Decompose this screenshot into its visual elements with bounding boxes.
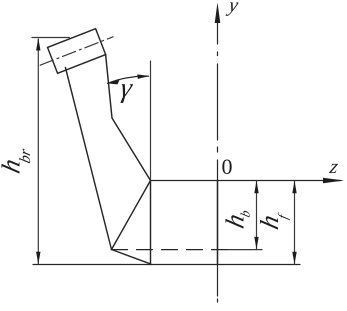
- h_br dimension line: [37, 39, 39, 264]
- h_b dimension line: [256, 181, 258, 249]
- central rectangle left edge: [150, 181, 152, 265]
- baseline (bottom line, h_f extension): [33, 264, 300, 266]
- z axis: [151, 180, 342, 182]
- h_f dimension line: [294, 181, 296, 264]
- y axis (dash-dot): [217, 20, 219, 44]
- blade left edge: [65, 67, 111, 249]
- h_br extension line (top): [32, 37, 69, 39]
- h_f bottom arrowhead: [292, 252, 296, 264]
- svg-text:γ: γ: [119, 73, 135, 104]
- z axis arrowhead: [323, 178, 344, 183]
- tooth front face: [112, 181, 151, 250]
- svg-text:hb: hb: [220, 204, 253, 232]
- h_b top arrowhead: [254, 181, 258, 194]
- gamma arc left arrowhead: [108, 80, 120, 85]
- head centerline (dash-dot): [40, 37, 113, 65]
- svg-text:z: z: [327, 156, 340, 178]
- h_br top arrowhead: [36, 38, 40, 51]
- gamma arc right arrowhead: [137, 74, 149, 79]
- y axis arrowhead: [215, 3, 221, 24]
- h_b bottom arrowhead: [254, 237, 258, 250]
- svg-text:y: y: [225, 0, 240, 16]
- tooth bottom flank: [112, 250, 151, 264]
- svg-text:hf: hf: [254, 206, 290, 234]
- svg-text:hbr: hbr: [0, 141, 34, 178]
- h_b extension line: [228, 249, 262, 251]
- blade right edge (rake side, kinked): [106, 55, 151, 181]
- h_br bottom arrowhead: [36, 252, 40, 264]
- dashed line at h_b level: [112, 249, 230, 251]
- gamma arc: [108, 76, 149, 83]
- tool head rectangle (tilted): [48, 29, 106, 74]
- gamma extension line (vertical): [150, 61, 152, 181]
- central rectangle right edge (on y-axis): [217, 181, 219, 265]
- h_f top arrowhead: [292, 181, 296, 194]
- svg-text:0: 0: [222, 154, 233, 179]
